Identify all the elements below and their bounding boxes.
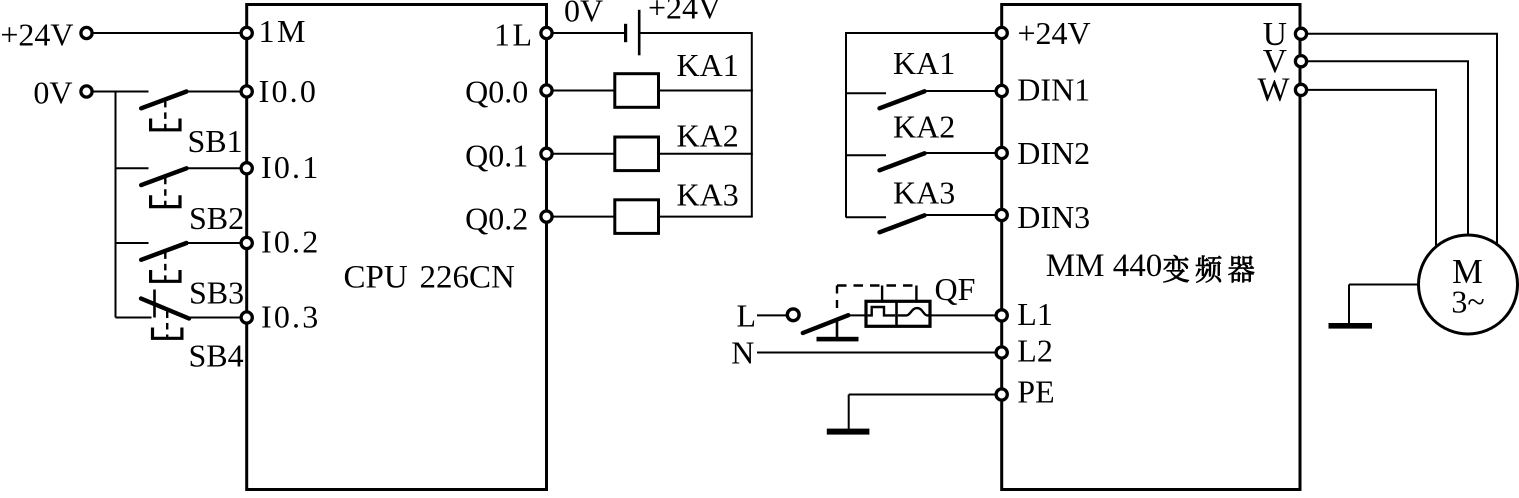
relay contact KA3 (NO) blade xyxy=(880,215,925,232)
svg-text:KA3: KA3 xyxy=(677,177,739,213)
wire PE terminal leftwards xyxy=(849,394,996,396)
wire earth drop (motor) xyxy=(1348,285,1350,324)
battery GB negative plate (short) xyxy=(624,24,627,42)
relay coil KA1 xyxy=(615,74,659,108)
wire bus stub to contact KA2 xyxy=(846,154,886,156)
wire 0V vertical bus xyxy=(115,92,117,318)
relay contact KA2 (NO) blade xyxy=(880,153,925,170)
wire +24V rail vertical xyxy=(751,32,753,217)
svg-text:L: L xyxy=(737,298,757,334)
terminal I0.3 (pin circle) xyxy=(241,312,252,323)
pushbutton SB4 NC contact blade xyxy=(141,299,189,319)
wire motor frame to earth xyxy=(1349,284,1419,286)
svg-text:I0.0: I0.0 xyxy=(259,73,318,109)
svg-text:SB2: SB2 xyxy=(189,200,244,236)
terminal Q0.2 (pin circle) xyxy=(541,211,552,222)
svg-text:L1: L1 xyxy=(1017,296,1053,332)
label chinese char 器 (bian-pin-qi inverter) xyxy=(1228,256,1254,283)
terminal L2 (pin circle) xyxy=(996,347,1007,358)
breaker QF linkage drop left xyxy=(881,286,883,302)
pushbutton SB1 actuator (dashed link + button cap) xyxy=(151,101,180,130)
pushbutton SB1 NO contact blade xyxy=(141,92,186,109)
svg-text:1M: 1M xyxy=(259,13,308,49)
svg-text:Q0.0: Q0.0 xyxy=(465,74,528,110)
wire SB4 to I0.3 xyxy=(188,317,242,319)
svg-text:N: N xyxy=(731,335,754,371)
wire 0V to SB1 / bus junction xyxy=(92,91,148,93)
battery GB positive plate (long) xyxy=(638,10,641,56)
wire +24V bus to +24V terminal xyxy=(846,32,996,34)
svg-text:KA3: KA3 xyxy=(893,175,955,211)
breaker QF operating linkage (dashed) xyxy=(837,286,916,315)
motor M 3~ circle xyxy=(1419,235,1518,334)
terminal PE (pin circle) xyxy=(996,389,1007,400)
svg-text:+24V: +24V xyxy=(1018,15,1091,51)
wire contact KA3 to DIN xyxy=(924,214,997,216)
terminal W (pin circle) xyxy=(1295,84,1306,95)
terminal U (pin circle) xyxy=(1295,28,1306,39)
wire coil KA2 to +24V rail xyxy=(659,153,753,155)
wire SB1 to I0.0 xyxy=(186,91,242,93)
svg-text:I0.3: I0.3 xyxy=(261,299,320,335)
breaker QF switch blade xyxy=(803,315,849,333)
terminal V (pin circle) xyxy=(1295,56,1306,67)
relay contact KA1 (NO) blade xyxy=(880,91,925,108)
terminal 1L (pin circle) xyxy=(541,27,552,38)
svg-text:QF: QF xyxy=(935,271,976,307)
wire bus to SB4 xyxy=(116,317,152,319)
terminal DIN1 (pin circle) xyxy=(996,85,1007,96)
svg-text:PE: PE xyxy=(1017,374,1054,410)
plug/socket contact of L xyxy=(787,309,799,321)
svg-text:+24V: +24V xyxy=(0,17,73,53)
wire +24V to 1M xyxy=(92,32,242,34)
svg-text:0V: 0V xyxy=(33,75,72,111)
relay coil KA2 xyxy=(615,137,659,171)
earth bar for motor xyxy=(1329,323,1373,329)
svg-text:I0.1: I0.1 xyxy=(261,149,320,185)
inverter box MM 440 xyxy=(1002,5,1300,490)
breaker QF thermal release symbol (hump) xyxy=(898,308,929,315)
wire contact KA1 to DIN xyxy=(924,90,997,92)
wire bus stub to SB2 xyxy=(116,167,149,169)
svg-text:KA1: KA1 xyxy=(893,45,955,81)
svg-text:Q0.2: Q0.2 xyxy=(465,201,528,237)
wire 1L to battery xyxy=(552,32,624,34)
wire W phase to motor xyxy=(1307,90,1436,248)
PLC box CPU 226CN xyxy=(247,5,547,490)
svg-text:SB3: SB3 xyxy=(189,275,244,311)
wire blade to QF box xyxy=(848,314,866,316)
wire SB3 to I0.2 xyxy=(186,242,242,244)
breaker QF electromagnetic release symbol (square bump) xyxy=(868,307,896,315)
svg-text:DIN3: DIN3 xyxy=(1017,199,1090,235)
wire Q output to coil KA1 xyxy=(552,90,615,92)
terminal +24V (left supply) xyxy=(81,27,92,38)
breaker QF latch bar (thick) xyxy=(817,337,859,342)
terminal I0.1 (pin circle) xyxy=(241,163,252,174)
svg-text:DIN1: DIN1 xyxy=(1017,72,1090,108)
wire Q output to coil KA2 xyxy=(552,153,615,155)
wire PE down to earth xyxy=(848,395,850,429)
wire QF box to L1 xyxy=(930,314,996,316)
svg-text:W: W xyxy=(1258,72,1291,109)
svg-text:1L: 1L xyxy=(494,17,535,53)
terminal 0V (left supply) xyxy=(81,86,92,97)
svg-text:+24V: +24V xyxy=(648,0,721,26)
wire Q output to coil KA3 xyxy=(552,216,615,218)
svg-text:I0.2: I0.2 xyxy=(261,224,320,260)
wire coil KA3 to +24V rail xyxy=(659,216,753,218)
label chinese char 变 (bian-pin-qi inverter) xyxy=(1163,255,1188,282)
pushbutton SB4 actuator (dashed link + button cap) xyxy=(153,312,182,339)
wire bus stub to contact KA3 xyxy=(846,216,886,218)
svg-text:KA2: KA2 xyxy=(677,117,739,153)
wire contact KA2 to DIN xyxy=(924,152,997,154)
svg-text:SB1: SB1 xyxy=(188,123,243,159)
wire bus stub to SB3 xyxy=(116,242,149,244)
wire V phase to motor xyxy=(1307,61,1468,236)
svg-text:Q0.1: Q0.1 xyxy=(465,138,528,174)
wire battery to +24V rail xyxy=(640,32,752,34)
terminal I0.2 (pin circle) xyxy=(241,237,252,248)
svg-text:CPU 226CN: CPU 226CN xyxy=(344,260,515,296)
svg-text:KA2: KA2 xyxy=(893,109,955,145)
label chinese char 频 (bian-pin-qi inverter) xyxy=(1196,256,1222,283)
terminal DIN3 (pin circle) xyxy=(996,209,1007,220)
wire coil KA1 to +24V rail xyxy=(659,90,753,92)
wire bus stub to contact KA1 xyxy=(846,92,886,94)
wire KA contact bus vertical xyxy=(845,32,847,218)
earth bar for PE xyxy=(827,429,870,435)
svg-text:KA1: KA1 xyxy=(677,47,739,83)
wire L to plug contact xyxy=(757,314,787,316)
svg-text:DIN2: DIN2 xyxy=(1017,135,1090,171)
terminal Q0.0 (pin circle) xyxy=(541,85,552,96)
breaker QF release box xyxy=(866,301,930,326)
pushbutton SB3 NO contact blade xyxy=(141,243,186,260)
terminal I0.0 (pin circle) xyxy=(241,86,252,97)
pushbutton SB4 NC contact stop bar xyxy=(153,290,156,318)
breaker QF trip lever (solid below blade) xyxy=(836,319,839,338)
svg-text:3~: 3~ xyxy=(1451,284,1484,320)
terminal Q0.1 (pin circle) xyxy=(541,148,552,159)
relay coil KA3 xyxy=(615,200,659,234)
pushbutton SB3 actuator (dashed link + button cap) xyxy=(151,252,180,281)
terminal DIN2 (pin circle) xyxy=(996,147,1007,158)
breaker QF release box divider xyxy=(895,301,898,326)
pushbutton SB2 NO contact blade xyxy=(141,168,186,185)
breaker QF linkage drop right xyxy=(915,286,917,302)
terminal L1 (pin circle) xyxy=(996,310,1007,321)
wire U phase to motor xyxy=(1307,34,1497,245)
pushbutton SB2 actuator (dashed link + button cap) xyxy=(151,178,180,207)
wire N to L2 xyxy=(757,352,996,354)
svg-text:L2: L2 xyxy=(1017,333,1053,369)
wire SB2 to I0.1 xyxy=(186,167,242,169)
svg-text:SB4: SB4 xyxy=(189,338,244,374)
terminal 1M (pin circle) xyxy=(241,27,252,38)
svg-text:0V: 0V xyxy=(564,0,603,29)
svg-text:MM 440: MM 440 xyxy=(1046,248,1162,284)
terminal +24V (pin circle) xyxy=(996,27,1007,38)
